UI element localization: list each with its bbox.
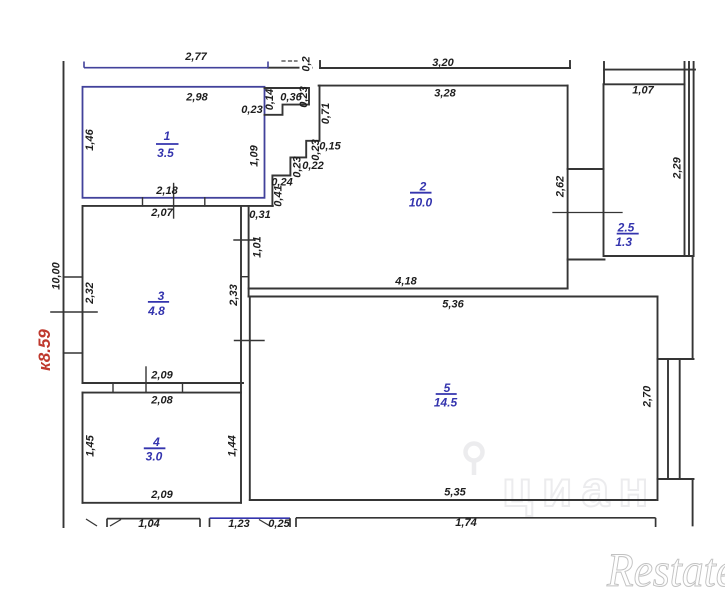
svg-text:4,18: 4,18 bbox=[394, 276, 417, 288]
right outer wall middle segment bbox=[692, 256, 694, 359]
left outer wall bbox=[63, 62, 65, 527]
svg-text:0,23: 0,23 bbox=[241, 104, 262, 116]
recess bottom line right of room 2 bbox=[568, 259, 605, 261]
window lines right of room 2.5 bbox=[684, 62, 686, 256]
svg-text:0,15: 0,15 bbox=[319, 141, 341, 153]
recess top line right of room 2 bbox=[568, 168, 604, 170]
svg-text:3.0: 3.0 bbox=[146, 450, 163, 464]
room 3 bottom wall bbox=[83, 382, 244, 384]
corridor wall line A bbox=[240, 206, 242, 503]
tick through 2.09/2.08 bbox=[145, 367, 147, 393]
room 4 left wall bbox=[82, 393, 84, 503]
door jamb ticks under room 1 bbox=[142, 198, 144, 206]
dim line 4.18 bbox=[249, 288, 568, 290]
room 2.5 left wall bbox=[603, 84, 605, 256]
tick left of 3.20 line bbox=[319, 61, 321, 68]
room 2.5 top wall bbox=[604, 83, 685, 85]
svg-text:2,98: 2,98 bbox=[185, 92, 208, 104]
top dim line 3.20 bbox=[320, 67, 570, 69]
svg-text:2,33: 2,33 bbox=[228, 284, 240, 306]
svg-text:4.8: 4.8 bbox=[147, 304, 165, 318]
dim tick line across recess bbox=[553, 212, 622, 214]
svg-text:к8.59: к8.59 bbox=[35, 329, 54, 371]
left wall ticks bbox=[64, 276, 83, 278]
svg-text:1,46: 1,46 bbox=[84, 128, 96, 150]
svg-text:1,45: 1,45 bbox=[85, 434, 97, 456]
svg-text:0,23: 0,23 bbox=[292, 156, 304, 177]
room 5 left wall tick bbox=[235, 340, 265, 342]
room 5 bottom wall bbox=[250, 499, 656, 501]
watermark cian pin bbox=[466, 444, 483, 476]
svg-text:1,23: 1,23 bbox=[228, 518, 249, 530]
svg-text:0,14: 0,14 bbox=[264, 89, 276, 110]
wall below room 1 (room 3 top) bbox=[83, 205, 273, 207]
svg-text:1,74: 1,74 bbox=[455, 517, 476, 529]
svg-text:циан: циан bbox=[502, 461, 657, 517]
window right of room 5 sills bbox=[658, 358, 694, 360]
svg-text:5,35: 5,35 bbox=[444, 487, 466, 499]
room 2 right wall bbox=[567, 86, 569, 289]
room 1 outline (blue) bbox=[83, 87, 265, 198]
room 2 top wall bbox=[319, 85, 568, 87]
top dim line black segment bbox=[268, 67, 312, 69]
svg-text:2,09: 2,09 bbox=[150, 489, 173, 501]
svg-text:3: 3 bbox=[158, 289, 165, 303]
svg-text:1,01: 1,01 bbox=[252, 236, 264, 257]
svg-text:0,23: 0,23 bbox=[310, 139, 322, 160]
svg-text:1,44: 1,44 bbox=[227, 435, 239, 456]
room 2.5 bottom wall bbox=[605, 255, 694, 257]
dim texts bbox=[51, 51, 684, 530]
svg-text:14.5: 14.5 bbox=[434, 396, 458, 410]
svg-text:2,07: 2,07 bbox=[150, 207, 173, 219]
svg-text:1.3: 1.3 bbox=[615, 235, 632, 249]
corridor tick at 1.01 bbox=[234, 239, 255, 241]
svg-text:1,04: 1,04 bbox=[138, 518, 159, 530]
svg-text:3.5: 3.5 bbox=[157, 146, 174, 160]
svg-text:1,07: 1,07 bbox=[632, 85, 654, 97]
corridor jamb bbox=[241, 276, 249, 278]
bottom cropped dimension boxes bbox=[86, 518, 656, 527]
svg-text:1: 1 bbox=[164, 129, 171, 143]
svg-text:2,70: 2,70 bbox=[642, 385, 654, 408]
svg-text:2.5: 2.5 bbox=[617, 220, 635, 234]
svg-text:10.0: 10.0 bbox=[409, 195, 433, 209]
svg-text:0,41: 0,41 bbox=[273, 185, 285, 206]
right outer wall bottom segment bbox=[692, 479, 694, 525]
svg-text:1,09: 1,09 bbox=[249, 144, 261, 166]
svg-text:2,77: 2,77 bbox=[184, 51, 207, 63]
blue top dim line of room 1 bbox=[84, 62, 268, 68]
window glass lines right of room 5 bbox=[667, 359, 669, 479]
long tick through 2.18 / 2.07 bbox=[173, 184, 175, 219]
step box right of room 1 bbox=[265, 88, 310, 115]
svg-text:2,08: 2,08 bbox=[150, 395, 173, 407]
room 5 right wall bbox=[657, 297, 659, 501]
svg-text:10,00: 10,00 bbox=[51, 261, 63, 289]
room 4 top wall bbox=[83, 392, 242, 394]
svg-text:2,32: 2,32 bbox=[84, 282, 96, 304]
svg-text:Restate: Restate bbox=[606, 544, 725, 589]
room 4 bottom wall bbox=[83, 502, 242, 504]
corridor wall line B bbox=[248, 206, 250, 297]
svg-text:0,22: 0,22 bbox=[302, 160, 323, 172]
svg-text:0,71: 0,71 bbox=[320, 103, 332, 124]
svg-text:0,23: 0,23 bbox=[298, 86, 310, 107]
svg-text:0,31: 0,31 bbox=[249, 209, 270, 221]
room 3 left wall bbox=[82, 206, 84, 383]
svg-text:2,09: 2,09 bbox=[150, 370, 173, 382]
svg-text:2,18: 2,18 bbox=[155, 185, 178, 197]
svg-text:2,62: 2,62 bbox=[555, 176, 567, 198]
svg-text:0,2: 0,2 bbox=[301, 56, 313, 71]
svg-text:3,28: 3,28 bbox=[434, 88, 456, 100]
tick left end top right wall bbox=[603, 62, 605, 84]
door jambs between room 3 and 4 bbox=[112, 383, 114, 393]
svg-text:5,36: 5,36 bbox=[442, 299, 464, 311]
svg-text:2: 2 bbox=[419, 179, 427, 193]
top right wall over room 2.5 bbox=[604, 69, 695, 71]
svg-text:4: 4 bbox=[152, 435, 160, 449]
break marks bbox=[110, 520, 121, 527]
svg-text:2,29: 2,29 bbox=[672, 156, 684, 179]
staircase wall from room 2 down to room 3 bbox=[272, 86, 319, 206]
tick right of 3.20 line bbox=[569, 61, 571, 68]
room labels bbox=[144, 129, 639, 464]
room 5 top wall bbox=[249, 296, 658, 298]
svg-text:3,20: 3,20 bbox=[432, 57, 454, 69]
room 5 left wall bbox=[249, 297, 251, 501]
svg-text:0,25: 0,25 bbox=[268, 518, 290, 530]
cut text dashes bbox=[282, 60, 285, 62]
